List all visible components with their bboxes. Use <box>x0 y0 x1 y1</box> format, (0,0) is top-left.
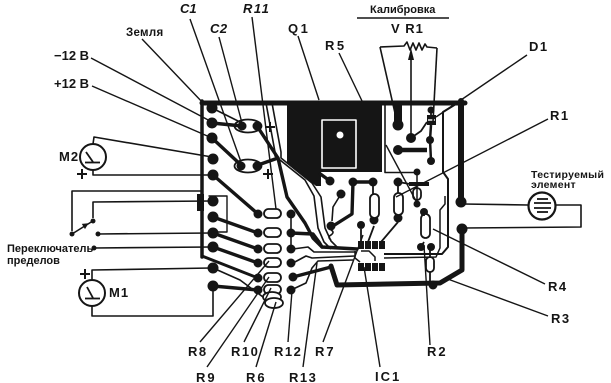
corner trace down right side <box>384 104 456 254</box>
leader R13 <box>303 263 317 367</box>
pad q leg 1 <box>326 177 335 186</box>
pad below pill E <box>414 201 421 208</box>
pill pads left <box>254 210 263 219</box>
bottom ground trace <box>331 232 462 285</box>
pill pads right <box>287 210 296 219</box>
resistor pill 3 <box>264 244 281 253</box>
left edge tab <box>197 194 204 211</box>
svg-text:пределов: пределов <box>7 255 60 267</box>
pad M1 top <box>208 263 219 274</box>
leader R2 <box>424 245 430 345</box>
leader R9 <box>207 277 269 367</box>
trace bundle 1 <box>272 103 338 248</box>
vertical pills <box>370 188 434 272</box>
leader R7 <box>323 235 363 342</box>
meter M1 <box>79 280 105 306</box>
resistor R11 pill <box>264 209 281 218</box>
wire M1 top <box>92 268 211 280</box>
wire switch pole <box>72 191 202 231</box>
trace C2 V <box>257 126 278 165</box>
test element symbol <box>529 193 556 220</box>
leader R4 <box>433 229 545 284</box>
C1 plus mark <box>263 173 273 175</box>
pad D1 bottom <box>427 157 435 165</box>
vertical trace right pads <box>290 214 292 249</box>
svg-text:R9: R9 <box>196 370 217 383</box>
svg-text:Калибровка: Калибровка <box>370 4 436 16</box>
VR1 stub trace <box>394 103 402 122</box>
resistor pill 8 <box>265 298 283 308</box>
leader +12V <box>92 86 212 138</box>
trace pad1 to C2 <box>216 110 242 123</box>
fan top with zigzag <box>380 42 437 50</box>
IC route 3 <box>291 260 353 290</box>
pad ground <box>207 103 218 114</box>
svg-text:C1: C1 <box>180 1 197 16</box>
pad q leg 3 <box>349 178 358 187</box>
pill D leads <box>429 247 431 257</box>
trace pad3 to C1 <box>212 138 241 165</box>
resistor pill B <box>394 193 403 215</box>
trace pad2 to C2 <box>212 123 242 126</box>
pad VR1 wiper <box>406 133 416 143</box>
potentiometer VR1 fan left <box>380 47 397 122</box>
wire switch arm <box>93 201 211 218</box>
trace bundle 2 <box>266 103 331 249</box>
pad mid low <box>327 222 336 231</box>
left edge to pill5 trace <box>202 256 258 278</box>
trace pad c3 to R pill3 <box>213 233 258 249</box>
resistor pill 4 <box>264 258 281 267</box>
C2 plus mark <box>263 122 275 179</box>
board left edge <box>200 101 204 257</box>
pad octagon left <box>414 169 421 176</box>
IC1 pads bottom row <box>358 263 364 271</box>
VR1 wiper line <box>410 57 412 137</box>
pad D1 top <box>428 107 435 114</box>
svg-text:R6: R6 <box>246 370 267 383</box>
capacitor C1 outline <box>235 160 262 173</box>
pad +12V <box>207 133 218 144</box>
leader Q1 <box>298 36 319 100</box>
IC top traces <box>360 229 362 242</box>
svg-text:+12 В: +12 В <box>54 76 89 91</box>
C2 pads <box>238 122 247 131</box>
thick bar <box>398 148 427 153</box>
diode D1 body <box>427 115 436 125</box>
bottom-left thin rect trace <box>209 196 227 232</box>
pad test element 2 <box>457 224 468 235</box>
leader R12 <box>288 291 292 342</box>
pad on bottom trace <box>429 281 438 290</box>
leader ground <box>142 39 204 104</box>
pad -12V <box>207 118 218 129</box>
range switch <box>70 219 101 251</box>
leader C2 <box>219 37 242 123</box>
svg-text:R3: R3 <box>551 311 571 326</box>
leader IC1 <box>364 267 380 367</box>
svg-text:M1: M1 <box>109 285 129 300</box>
pad switch c4 <box>208 242 219 253</box>
pad 7 <box>208 212 219 223</box>
leader R8 <box>200 261 269 342</box>
IC route 1 <box>293 247 356 252</box>
pad M1 bottom <box>208 281 219 292</box>
resistor pill D <box>426 257 434 272</box>
meter M2 <box>80 144 106 170</box>
svg-text:элемент: элемент <box>531 179 576 191</box>
VR1 wiper arrowhead <box>408 48 414 60</box>
svg-text:R11: R11 <box>243 1 270 16</box>
trace pad M1bot to R pill6 <box>213 286 258 290</box>
pad pillB top <box>394 178 403 187</box>
transistor leg trace <box>332 194 341 221</box>
fan right <box>433 48 437 122</box>
resistor pill A <box>370 194 379 218</box>
trace pill2 right <box>291 233 322 247</box>
svg-text:M2: M2 <box>59 149 79 164</box>
parallel trace <box>384 196 445 258</box>
C1 pads <box>237 162 246 171</box>
Q1 mounting hole <box>337 132 344 139</box>
leader C1 <box>190 19 241 162</box>
pad switch c3 <box>208 228 219 239</box>
resistor pill 6 <box>264 285 281 294</box>
trace wiper to D1 <box>411 122 427 138</box>
pad R4 bottom <box>417 243 425 251</box>
pad bar left <box>393 145 403 155</box>
svg-text:−12 В: −12 В <box>54 48 89 63</box>
trace pad c4 to R pill4 <box>213 247 258 263</box>
pad test element 1 <box>456 197 467 208</box>
svg-text:IC1: IC1 <box>375 369 401 383</box>
pillB stub top <box>397 182 399 193</box>
pad near R4 <box>427 243 435 251</box>
svg-text:R7: R7 <box>315 344 336 359</box>
trace pad M2bot to R pill1 <box>213 175 258 214</box>
transistor Q1 outline on pour <box>322 120 356 168</box>
underline <box>357 17 449 19</box>
R4 stub <box>423 212 425 216</box>
trace C1 to mid <box>278 158 357 249</box>
pillA stub top <box>372 182 374 194</box>
leader D1 <box>436 55 527 117</box>
svg-text:R1: R1 <box>550 108 570 123</box>
svg-text:V R1: V R1 <box>391 21 424 36</box>
leader R5 <box>339 53 363 103</box>
svg-text:D1: D1 <box>529 39 549 54</box>
svg-text:R5: R5 <box>325 38 347 53</box>
wire switch c3 <box>98 233 211 234</box>
wire test element right <box>464 205 581 228</box>
resistor pill 5 <box>264 273 281 282</box>
pad ic top left <box>357 221 365 229</box>
M1 plus <box>80 269 90 279</box>
trace under pour <box>385 104 415 173</box>
wire M2 bottom <box>93 170 212 175</box>
svg-text:R10: R10 <box>231 344 259 359</box>
pad D1 mid <box>426 136 434 144</box>
resistor pill 7 <box>263 292 281 302</box>
pad M2 top <box>208 154 219 165</box>
board top edge <box>202 101 465 106</box>
leader R3 <box>445 278 548 316</box>
resistor pill E <box>413 188 421 200</box>
wire M2 top <box>93 137 212 157</box>
resistor pill 2 <box>264 228 281 237</box>
IC1 pads top row <box>358 241 364 249</box>
svg-text:R13: R13 <box>289 370 317 383</box>
leader R6 <box>256 302 276 367</box>
M2 plus <box>77 169 87 179</box>
pad M2 bottom <box>208 170 219 181</box>
IC route 2 <box>293 256 355 263</box>
pad q leg 2 <box>337 190 346 199</box>
pad pillA top <box>369 178 378 187</box>
svg-text:R8: R8 <box>188 344 208 359</box>
wire test element left <box>463 204 528 205</box>
leader -12V <box>91 58 212 122</box>
leader R10 <box>244 288 271 342</box>
capacitor C2 outline <box>235 120 262 133</box>
pad pillB bottom <box>394 214 403 223</box>
svg-text:R12: R12 <box>274 344 302 359</box>
trace pad10 to pill7 <box>213 268 263 297</box>
wire switch c4 <box>94 247 211 248</box>
leader R11 <box>252 17 276 209</box>
R5 lead <box>416 172 418 204</box>
leader R1 <box>396 119 548 197</box>
svg-text:R4: R4 <box>548 279 568 294</box>
copper pour (ground plane) <box>287 101 382 186</box>
pad pillA bottom <box>370 216 379 225</box>
wire M1 bottom <box>92 288 213 316</box>
trace pill5 to bottom pad <box>293 267 331 277</box>
pad switch arm <box>208 196 219 207</box>
resistor R4 pill <box>421 214 430 238</box>
board right edge trace <box>458 101 464 199</box>
svg-text:Q1: Q1 <box>288 21 310 36</box>
pad R4 top <box>420 208 428 216</box>
pad VR1 left <box>390 117 406 133</box>
thick bar 2 <box>409 182 429 186</box>
svg-text:Земля: Земля <box>126 27 163 39</box>
thick elbow trace <box>333 182 373 226</box>
svg-text:Переключатель: Переключатель <box>7 243 93 255</box>
trace D1 chain <box>430 110 432 115</box>
trace pad7 to R pill2 <box>213 217 258 233</box>
svg-text:R2: R2 <box>427 344 448 359</box>
IC1 inner traces <box>355 251 375 262</box>
svg-text:C2: C2 <box>210 21 228 36</box>
thick L trace <box>319 173 330 181</box>
